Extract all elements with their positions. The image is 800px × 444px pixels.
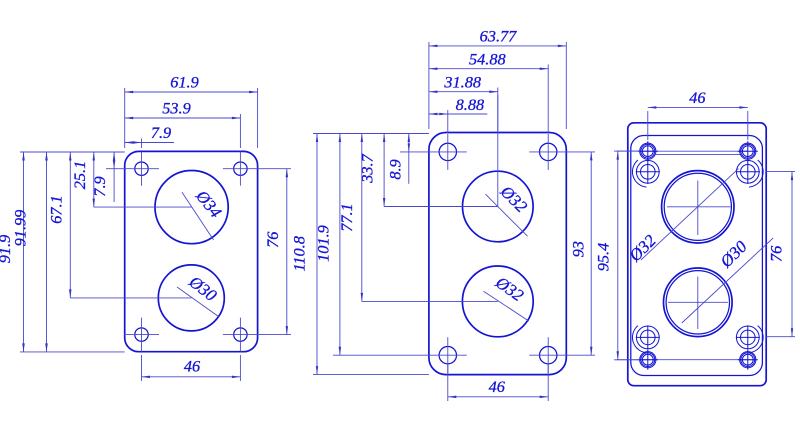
dimension A 53.9	[125, 117, 241, 119]
svg-text:7.9: 7.9	[151, 123, 171, 142]
plate A outline	[125, 151, 258, 351]
ext line A right edge top	[257, 88, 259, 148]
dimension A 91.9	[23, 152, 25, 352]
dimension B 77.1	[361, 134, 363, 302]
ext line A right hole top	[239, 114, 241, 148]
dimension C 95.4	[617, 151, 619, 360]
hole A2 centerline	[70, 297, 191, 299]
screw boss arc C top-right	[749, 160, 763, 187]
hole C1 circle Ø32	[662, 171, 734, 243]
screw C small bottom-right	[740, 352, 756, 368]
dimension A 7.9 left	[113, 152, 115, 169]
mounting hole A bottom-right with centerlines	[234, 328, 247, 341]
dimension B 63.77	[429, 45, 566, 47]
mounting hole A top-right with centerlines	[234, 162, 247, 175]
hole A1 leader line	[182, 192, 214, 240]
svg-text:76: 76	[263, 231, 282, 248]
hole A2 circle Ø30	[158, 265, 224, 331]
hole B2 horizontal centerline	[362, 300, 498, 302]
cover C top flange line	[656, 154, 740, 156]
hole B1 vertical centerline	[497, 95, 499, 207]
ext line B bottom hole left	[447, 364, 449, 401]
dimension A 76	[286, 169, 288, 335]
screw C large bottom-right	[736, 326, 759, 349]
ext line C large-row right bottom	[766, 336, 795, 338]
ext line A hole-row left	[106, 168, 126, 170]
dimension B 101.9	[339, 134, 341, 356]
svg-text:95.4: 95.4	[594, 243, 613, 272]
svg-text:46: 46	[489, 377, 506, 396]
screw C small top-right	[740, 143, 756, 159]
ext line B bottom-hole-row left	[333, 354, 430, 356]
svg-text:77.1: 77.1	[337, 203, 356, 232]
svg-text:61.9: 61.9	[170, 73, 199, 92]
ext line B center top	[497, 88, 499, 134]
dimension B 33.7	[383, 134, 385, 207]
screw C small top-left	[640, 143, 656, 159]
hole B1 circle Ø32 upper	[463, 171, 534, 242]
hole C2 crosshair	[668, 301, 728, 303]
screw C small bottom-left	[640, 352, 656, 368]
ext line C small-row left bottom	[614, 359, 640, 361]
screw C large top-right	[736, 160, 759, 183]
ext line C large-row right top	[766, 171, 795, 173]
dimension A 46	[142, 376, 241, 378]
dimension A 91.99	[46, 152, 48, 352]
hole B1 horizontal centerline	[384, 206, 498, 208]
dimension A 25.1	[93, 152, 95, 207]
svg-text:53.9: 53.9	[162, 99, 191, 118]
ext line C left screw top	[647, 111, 649, 140]
cover C inner outline	[631, 136, 763, 376]
dimension B 31.88	[429, 91, 498, 93]
svg-text:8.9: 8.9	[385, 159, 404, 179]
svg-text:93: 93	[568, 241, 587, 257]
ext line C right screw top	[747, 111, 749, 140]
ext line B hole-row left	[400, 151, 430, 153]
svg-text:7.9: 7.9	[90, 176, 109, 196]
ext line B left hole top	[447, 110, 449, 133]
cover C bottom screw-row line	[617, 359, 756, 361]
cover C outer outline	[628, 123, 766, 386]
ext line B left edge top	[428, 42, 430, 129]
dimension A 61.9	[125, 91, 258, 93]
mounting hole B bottom-left with centerlines	[439, 347, 456, 364]
dimension C 46	[648, 106, 748, 108]
svg-text:67.1: 67.1	[47, 195, 66, 224]
dimension C 76	[791, 172, 793, 337]
hole A1 circle Ø34	[155, 171, 228, 244]
svg-text:110.8: 110.8	[290, 236, 309, 271]
svg-text:46: 46	[689, 88, 706, 107]
svg-text:63.77: 63.77	[480, 27, 517, 46]
plate B outline	[429, 133, 566, 375]
ext line B right hole top	[547, 65, 549, 134]
ext line A left edge top	[124, 88, 126, 148]
mounting hole B top-right with centerlines	[540, 143, 557, 160]
dimension B 46	[448, 396, 548, 398]
mounting hole B top-left with centerlines	[439, 143, 456, 160]
svg-text:8.88: 8.88	[456, 95, 485, 114]
ext line A hole-row right bottom	[258, 334, 291, 336]
dimension B 110.8	[316, 134, 318, 375]
ext line B top-left horizontal	[313, 133, 429, 135]
hole B1 leader line	[486, 194, 528, 236]
ext line B hole-row right top	[566, 151, 595, 153]
svg-text:91.99: 91.99	[11, 210, 30, 247]
dimension A 7.9 top	[125, 142, 142, 144]
ext line A hole-row right top	[258, 168, 291, 170]
hole A2 leader line	[177, 287, 219, 317]
hole B2 leader line	[484, 291, 529, 321]
ext line A bottom-left horizontal	[20, 351, 125, 353]
ext line B right edge top	[565, 42, 567, 129]
hole C1 crosshair	[667, 206, 731, 208]
dimension B 8.88	[429, 113, 448, 115]
dimension B 8.9	[408, 134, 410, 152]
svg-text:101.9: 101.9	[313, 225, 332, 262]
svg-text:31.88: 31.88	[443, 73, 481, 92]
ext line B bottom-left horizontal	[313, 374, 429, 376]
screw boss arc C top-left	[632, 160, 646, 187]
mounting hole A top-left with centerlines	[135, 162, 148, 175]
ext line A bottom hole left	[141, 355, 143, 381]
mounting hole B bottom-right with centerlines	[540, 347, 557, 364]
hole C2 leader line	[682, 238, 773, 323]
ext line C small-row left top	[614, 150, 640, 152]
ext line A bottom hole right	[239, 355, 241, 381]
dimension B 54.88	[429, 68, 548, 70]
dimension B 93	[590, 152, 592, 355]
hole B2 circle Ø32 lower	[462, 266, 533, 337]
ext line B hole-row right bottom	[566, 354, 595, 356]
cover C top screw-row line	[617, 150, 748, 152]
svg-text:46: 46	[184, 357, 201, 376]
ext line B bottom hole right	[547, 364, 549, 401]
svg-text:54.88: 54.88	[469, 49, 506, 68]
screw boss arc C bottom-left	[632, 326, 646, 353]
ext line A left hole top	[141, 139, 143, 149]
hole C2 circle Ø30	[664, 268, 733, 337]
screw C large bottom-left	[636, 326, 659, 349]
svg-text:33.7: 33.7	[357, 153, 376, 183]
screw C large top-left	[636, 160, 659, 183]
svg-text:76: 76	[766, 245, 785, 262]
hole C1 leader line	[641, 169, 739, 260]
svg-text:25.1: 25.1	[70, 161, 89, 190]
dimension A 67.1	[69, 152, 71, 298]
mounting hole A bottom-left with centerlines	[135, 328, 148, 341]
hole A1 centerline	[94, 206, 192, 208]
screw boss arc C bottom-right	[749, 326, 763, 353]
ext line A top-left horizontal	[20, 151, 125, 153]
